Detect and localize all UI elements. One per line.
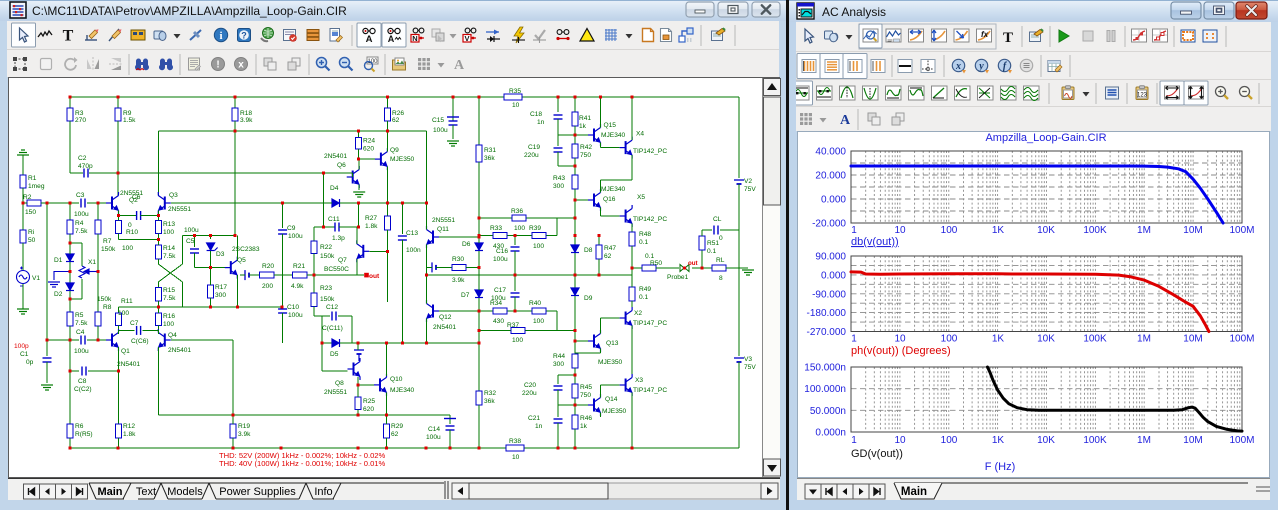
svg-text:C12: C12	[326, 304, 338, 311]
svg-text:x: x	[238, 60, 244, 71]
junction	[574, 274, 577, 277]
wire	[478, 405, 480, 448]
svg-text:0.000: 0.000	[821, 195, 846, 206]
wire	[157, 301, 159, 307]
svg-text:R6: R6	[75, 423, 84, 430]
wire	[601, 179, 633, 181]
wire Q2 collector	[117, 121, 119, 196]
wire R30 feedback	[466, 266, 479, 268]
wire Q9 base	[359, 158, 375, 160]
svg-text:1: 1	[851, 334, 857, 345]
svg-text:R20: R20	[262, 263, 274, 270]
wire	[97, 326, 99, 340]
junction	[157, 214, 160, 217]
svg-text:?: ?	[241, 30, 247, 40]
wire	[69, 97, 71, 108]
transistor Q3	[158, 192, 171, 214]
wire	[598, 259, 600, 275]
junction	[598, 274, 601, 277]
transistor Q2	[106, 192, 119, 214]
wire	[358, 149, 360, 159]
wire	[157, 326, 159, 331]
svg-text:Probe1: Probe1	[667, 274, 689, 281]
wire	[574, 236, 576, 245]
wire	[157, 216, 159, 221]
svg-text:0.1: 0.1	[645, 253, 654, 260]
wire	[97, 203, 99, 220]
junction	[701, 267, 704, 270]
junction	[478, 447, 481, 450]
wire	[22, 155, 24, 175]
capacitor C5	[190, 249, 199, 253]
resistor R3	[67, 108, 73, 121]
resistor R19	[230, 424, 236, 438]
svg-text:4.9k: 4.9k	[291, 283, 304, 290]
junction	[357, 447, 360, 450]
svg-text:MJE350: MJE350	[390, 156, 415, 163]
wire	[249, 274, 260, 276]
junction	[357, 158, 360, 161]
wire	[357, 385, 359, 397]
junction	[193, 234, 196, 237]
junction	[46, 202, 49, 205]
svg-text:TIP142_PC: TIP142_PC	[633, 148, 667, 155]
svg-text:R33: R33	[490, 225, 502, 232]
junction	[599, 96, 602, 99]
diode D7	[475, 290, 483, 298]
junction	[386, 130, 389, 133]
svg-text:40.000: 40.000	[815, 147, 846, 158]
wire	[157, 211, 159, 216]
junction	[478, 310, 481, 313]
wire Q8 base	[322, 370, 348, 372]
junction	[574, 134, 577, 137]
wire	[386, 203, 388, 216]
wire	[575, 134, 589, 136]
junction	[425, 274, 428, 277]
wire	[386, 97, 388, 108]
vertical scrollbar	[762, 78, 780, 477]
junction	[385, 414, 388, 417]
svg-text:C13: C13	[406, 230, 418, 237]
wire	[324, 202, 332, 204]
resistor R22	[311, 241, 317, 254]
wire	[88, 370, 119, 372]
svg-text:Q10: Q10	[390, 376, 403, 383]
junction	[452, 96, 455, 99]
wire	[557, 390, 559, 417]
svg-text:10: 10	[512, 102, 520, 109]
svg-text:1k: 1k	[579, 123, 587, 130]
wire	[282, 203, 284, 228]
svg-text:T: T	[1003, 30, 1013, 46]
resistor R35	[504, 94, 522, 100]
transistor Q13	[588, 330, 601, 352]
wire	[478, 267, 480, 290]
svg-text:R9: R9	[123, 110, 132, 117]
svg-text:!: !	[216, 60, 219, 71]
wire	[738, 184, 740, 356]
wire	[283, 202, 324, 204]
wire	[574, 253, 576, 288]
resistor R36	[512, 215, 526, 221]
svg-text:220u: 220u	[522, 390, 537, 397]
wire	[427, 266, 433, 268]
junction	[683, 267, 686, 270]
wire	[234, 97, 236, 108]
wire	[69, 121, 71, 173]
ground	[17, 309, 29, 314]
wire	[22, 284, 24, 309]
capacitor C8	[82, 367, 86, 376]
wire	[22, 188, 24, 230]
wire	[601, 317, 620, 319]
svg-text:620: 620	[363, 146, 374, 153]
wire Q12 base	[439, 310, 479, 312]
wire	[119, 306, 283, 308]
svg-text:100u: 100u	[184, 227, 199, 234]
svg-text:1meg: 1meg	[28, 183, 45, 190]
wire	[452, 125, 454, 139]
resistor R7	[95, 220, 101, 234]
wire	[692, 267, 712, 269]
junction	[46, 339, 49, 342]
transistor Q12	[427, 300, 440, 322]
wire Q10 base	[358, 384, 374, 386]
wire	[479, 217, 575, 219]
wire	[631, 275, 633, 287]
svg-text:270: 270	[75, 117, 86, 124]
svg-text:x: x	[955, 61, 961, 72]
wire	[47, 339, 79, 341]
svg-text:C11: C11	[328, 216, 340, 223]
gain curve db(v(out))	[851, 166, 1223, 223]
wire	[401, 203, 403, 234]
svg-text:C21: C21	[528, 415, 540, 422]
schematic canvas	[8, 77, 780, 478]
diode D4	[332, 199, 340, 207]
svg-text:1n: 1n	[537, 119, 545, 126]
wire	[314, 315, 330, 317]
svg-text:R36: R36	[511, 208, 523, 215]
svg-text:750: 750	[580, 152, 591, 159]
svg-text:100M: 100M	[1229, 334, 1254, 345]
svg-text:2N5551: 2N5551	[324, 389, 347, 396]
svg-text:R39: R39	[529, 225, 541, 232]
svg-text:C16: C16	[496, 248, 508, 255]
svg-text:2N5551: 2N5551	[168, 206, 191, 213]
svg-text:10M: 10M	[1183, 435, 1202, 446]
svg-text:C2: C2	[78, 155, 87, 162]
svg-text:150k: 150k	[320, 253, 335, 260]
wire	[600, 385, 602, 398]
junction	[280, 447, 283, 450]
transistor Q1	[106, 329, 119, 351]
svg-text:D5: D5	[330, 351, 339, 358]
svg-text:2N5401: 2N5401	[168, 347, 191, 354]
svg-text:V3: V3	[744, 356, 752, 363]
svg-text:A: A	[454, 58, 465, 73]
svg-text:TIP147_PC: TIP147_PC	[633, 320, 667, 327]
svg-text:R26: R26	[392, 110, 404, 117]
resistor R33	[493, 233, 507, 239]
svg-text:100: 100	[941, 225, 958, 236]
svg-text:out: out	[688, 260, 698, 267]
svg-text:A: A	[388, 34, 395, 44]
wire	[81, 279, 83, 299]
svg-text:RL: RL	[716, 257, 725, 264]
svg-text:MJE340: MJE340	[601, 186, 626, 193]
wire	[22, 243, 24, 270]
group delay curve GD(v(out))	[988, 367, 1243, 431]
svg-text:R38: R38	[509, 438, 521, 445]
svg-text:150.000n: 150.000n	[804, 363, 846, 374]
wire	[118, 307, 120, 313]
resistor R37	[511, 328, 525, 334]
svg-text:X4: X4	[636, 131, 644, 138]
wire to Q11 collector	[426, 131, 428, 203]
svg-text:D8: D8	[584, 247, 593, 254]
wire	[436, 266, 452, 268]
wire Q5 emitter	[236, 275, 238, 307]
plot client area	[797, 131, 1270, 478]
svg-text:R23: R23	[320, 285, 332, 292]
svg-text:Q14: Q14	[605, 396, 618, 403]
ground	[17, 150, 29, 155]
junction	[631, 96, 634, 99]
resistor R21	[293, 272, 308, 278]
svg-text:Q15: Q15	[604, 122, 617, 129]
wire	[46, 340, 48, 356]
junction	[478, 234, 481, 237]
wire	[69, 243, 71, 254]
svg-text:150: 150	[25, 209, 36, 216]
resistor R18	[232, 108, 238, 121]
junction	[321, 342, 324, 345]
wire Q6 collector	[358, 159, 360, 169]
svg-text:R27: R27	[365, 215, 377, 222]
wire V- bottom rail	[70, 447, 506, 449]
svg-text:100u: 100u	[288, 233, 303, 240]
capacitor C9	[278, 230, 287, 234]
resistor R39	[532, 233, 546, 239]
svg-text:100p: 100p	[14, 343, 29, 350]
capacitor C13	[398, 236, 407, 240]
junction	[478, 96, 481, 99]
svg-text:R41: R41	[579, 115, 591, 122]
junction	[557, 96, 560, 99]
resistor R25	[355, 397, 361, 409]
wire Q12 collector	[426, 319, 428, 344]
wire to Q2 base	[87, 202, 108, 204]
svg-text:100: 100	[118, 310, 129, 317]
svg-text:1.8k: 1.8k	[365, 223, 378, 230]
ground	[48, 282, 60, 287]
svg-text:CL: CL	[713, 216, 722, 223]
svg-text:-20.000: -20.000	[812, 219, 846, 230]
junction	[425, 202, 428, 205]
svg-text:100: 100	[941, 435, 958, 446]
wire Q7 collector	[356, 227, 358, 244]
svg-text:36k: 36k	[484, 155, 495, 162]
wire	[479, 235, 557, 237]
svg-text:1k: 1k	[580, 423, 588, 430]
svg-text:-90.000: -90.000	[812, 289, 846, 300]
svg-text:100: 100	[512, 337, 523, 344]
wire	[143, 329, 159, 331]
wire	[157, 330, 159, 334]
wire	[357, 343, 359, 350]
wire	[339, 226, 359, 228]
transistor Q8	[348, 358, 361, 380]
svg-text:D4: D4	[330, 185, 339, 192]
svg-text:300: 300	[215, 292, 226, 299]
svg-text:100M: 100M	[1229, 225, 1254, 236]
wire	[632, 267, 642, 269]
wire	[194, 236, 196, 248]
probe Probe1	[680, 265, 689, 272]
wire	[575, 340, 588, 342]
battery E2	[432, 262, 436, 272]
svg-text:1.5k: 1.5k	[123, 117, 136, 124]
junction	[69, 270, 72, 273]
transistor Q15	[588, 124, 601, 146]
svg-text:C6: C6	[132, 194, 141, 201]
wire	[656, 267, 679, 269]
svg-text:R7: R7	[103, 238, 112, 245]
diode D6	[475, 243, 483, 251]
wire	[574, 189, 576, 236]
svg-text:Q1: Q1	[121, 348, 130, 355]
diode D3 zener	[207, 243, 218, 251]
svg-text:100: 100	[941, 334, 958, 345]
wire	[23, 202, 27, 204]
svg-text:R49: R49	[639, 286, 651, 293]
wire	[69, 291, 71, 312]
junction	[209, 306, 212, 309]
svg-text:MJE340: MJE340	[601, 132, 626, 139]
junction	[574, 217, 577, 220]
svg-text:150k: 150k	[320, 296, 335, 303]
wire	[600, 208, 602, 217]
junction	[322, 172, 325, 175]
svg-text:R48: R48	[639, 231, 651, 238]
svg-text:R15: R15	[163, 287, 175, 294]
wire	[574, 398, 576, 415]
wire	[556, 218, 558, 236]
junction	[97, 339, 100, 342]
svg-text:A: A	[366, 34, 373, 45]
wire	[401, 240, 403, 343]
svg-text:X1: X1	[88, 259, 96, 266]
svg-text:Q6: Q6	[337, 162, 346, 169]
wire	[314, 226, 335, 228]
junction	[209, 266, 212, 269]
svg-text:2N5401: 2N5401	[433, 324, 456, 331]
svg-text:R21: R21	[293, 263, 305, 270]
junction	[281, 202, 284, 205]
wire	[118, 438, 120, 448]
source V1	[17, 267, 30, 287]
resistor R14	[155, 245, 161, 259]
svg-text:R19: R19	[238, 423, 250, 430]
wire	[313, 275, 315, 293]
wire	[575, 199, 588, 201]
wire	[232, 340, 234, 415]
svg-text:R30: R30	[452, 256, 464, 263]
wire	[449, 415, 451, 424]
wire	[321, 343, 323, 371]
svg-text:100K: 100K	[1083, 225, 1107, 236]
battery V2	[734, 180, 744, 184]
svg-text:Q4: Q4	[168, 332, 177, 339]
svg-text:2N5551: 2N5551	[432, 217, 455, 224]
junction	[478, 236, 481, 239]
wire	[478, 311, 480, 331]
junction	[236, 306, 239, 309]
svg-text:2SC2383: 2SC2383	[232, 246, 260, 253]
wire VAS output line	[427, 274, 633, 276]
svg-text:R5: R5	[75, 312, 84, 319]
svg-text:D1: D1	[54, 257, 63, 264]
wire	[514, 236, 516, 245]
resistor R9	[115, 108, 121, 121]
wire	[478, 331, 480, 343]
wire	[210, 251, 212, 268]
svg-text:R32: R32	[484, 390, 496, 397]
capacitor C16	[511, 247, 520, 251]
wire	[478, 97, 480, 145]
svg-text:MJE340: MJE340	[390, 387, 415, 394]
wire	[600, 318, 602, 334]
junction	[117, 447, 120, 450]
wire	[557, 375, 559, 384]
junction	[157, 306, 160, 309]
svg-text:R17: R17	[215, 284, 227, 291]
svg-text:10M: 10M	[1183, 225, 1202, 236]
wire Q3 base line	[171, 202, 283, 204]
junction	[385, 342, 388, 345]
capacitor CL	[714, 226, 718, 235]
svg-text:10K: 10K	[1037, 225, 1055, 236]
svg-text:R3: R3	[75, 110, 84, 117]
wire	[631, 301, 633, 311]
wire	[358, 131, 360, 138]
svg-text:R12: R12	[123, 423, 135, 430]
svg-text:1.8k: 1.8k	[123, 431, 136, 438]
junction	[598, 234, 601, 237]
svg-text:N: N	[412, 34, 417, 43]
wire	[313, 254, 315, 276]
svg-text:C7: C7	[130, 320, 139, 327]
svg-text:Models: Models	[167, 486, 203, 498]
svg-text:R45: R45	[580, 384, 592, 391]
svg-text:Ri: Ri	[28, 229, 35, 236]
junction	[574, 447, 577, 450]
wire feedback line	[307, 274, 364, 276]
resistor R10	[116, 221, 122, 234]
junction	[478, 342, 481, 345]
svg-text:X5: X5	[637, 194, 645, 201]
junction	[514, 310, 517, 313]
svg-text:36k: 36k	[484, 398, 495, 405]
transistor X3	[620, 374, 633, 396]
ground	[447, 141, 459, 146]
resistor Ri	[20, 230, 26, 243]
node out	[364, 273, 369, 278]
wire	[702, 229, 712, 231]
wire	[322, 342, 332, 344]
